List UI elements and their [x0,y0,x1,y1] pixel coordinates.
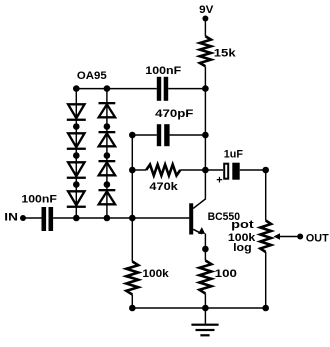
node rail-right-diode [104,85,111,92]
wire diode column left [75,89,77,218]
terminal 9V [202,16,208,22]
svg-text:BC550: BC550 [208,211,240,223]
resistor 100 emitter [199,261,211,294]
svg-text:log: log [233,242,252,254]
svg-text:IN: IN [4,212,18,224]
svg-text:100k: 100k [142,268,169,280]
ground [191,308,218,336]
node left diode 2-3 [73,152,80,159]
node base rail C [129,215,136,222]
terminal OUT [297,234,303,240]
diode D1 left column (cathode down) [67,104,86,121]
terminal IN [20,215,26,221]
node ground right [262,305,269,312]
svg-text:100nF: 100nF [21,193,57,205]
diode D4 left column (cathode down) [67,191,86,208]
node base rail B [104,215,111,222]
capacitor 100nF input [42,207,47,231]
wire 470k row [132,169,146,171]
wire main vertical [204,67,206,171]
capacitor 470pF [157,124,161,146]
wire output vertical [265,170,267,221]
wire top rail [76,88,157,90]
diode D2 left column (cathode down) [67,133,86,150]
diode D7 right column (cathode up) [99,160,116,175]
diode D8 right column (cathode up) [99,189,116,204]
diode D6 right column (cathode up) [99,131,116,146]
resistor 470k [146,165,180,176]
node collector [202,167,209,174]
svg-text:100: 100 [215,268,237,280]
wire input rail [23,217,42,219]
node 470k left [129,167,136,174]
capacitor 100nF top [157,77,161,101]
svg-text:100nF: 100nF [145,65,181,77]
node ground left [129,305,136,312]
wire collector [193,170,205,208]
svg-text:OUT: OUT [306,232,329,244]
node left diode 1-2 [73,123,80,130]
wire 470pF row [132,134,157,136]
svg-text:9V: 9V [199,4,214,16]
node right diode 1-2 [104,123,111,130]
wire emitter [193,229,202,234]
node left diode 3-4 [73,181,80,188]
node rail-left-diode [73,85,80,92]
wire ground rail [132,307,265,309]
transistor Q1 BC550 base bar [189,203,193,234]
transistor Q1 emitter arrowhead [198,227,205,234]
node rail-main [202,85,209,92]
svg-text:OA95: OA95 [77,70,107,82]
capacitor 1uF electrolytic [224,164,228,179]
wire 100k bias vertical [131,218,133,262]
node 470pF left [129,132,136,139]
node ground mid [202,305,209,312]
resistor 100k bias [126,262,138,295]
resistor 15k [200,36,211,66]
potentiometer pot 100k log [260,221,271,253]
wire 9V stub [204,19,206,37]
wire 1uF row [205,169,223,171]
svg-text:1uF: 1uF [224,148,243,160]
wire left feedback vertical [131,135,133,218]
svg-text:470pF: 470pF [155,108,194,120]
node right diode 3-4 [104,181,111,188]
svg-text:+: + [216,174,222,186]
node 1uF out [262,167,269,174]
svg-text:470k: 470k [149,181,178,193]
node base rail A [73,215,80,222]
node emitter [202,246,209,253]
node right diode 2-3 [104,152,111,159]
wire diode column right [106,89,108,218]
wire OUT [277,236,299,238]
diode D5 right column (cathode up) [99,102,116,117]
diode D3 left column (cathode down) [67,162,86,179]
node 470pF right [202,132,209,139]
svg-text:15k: 15k [214,47,237,59]
